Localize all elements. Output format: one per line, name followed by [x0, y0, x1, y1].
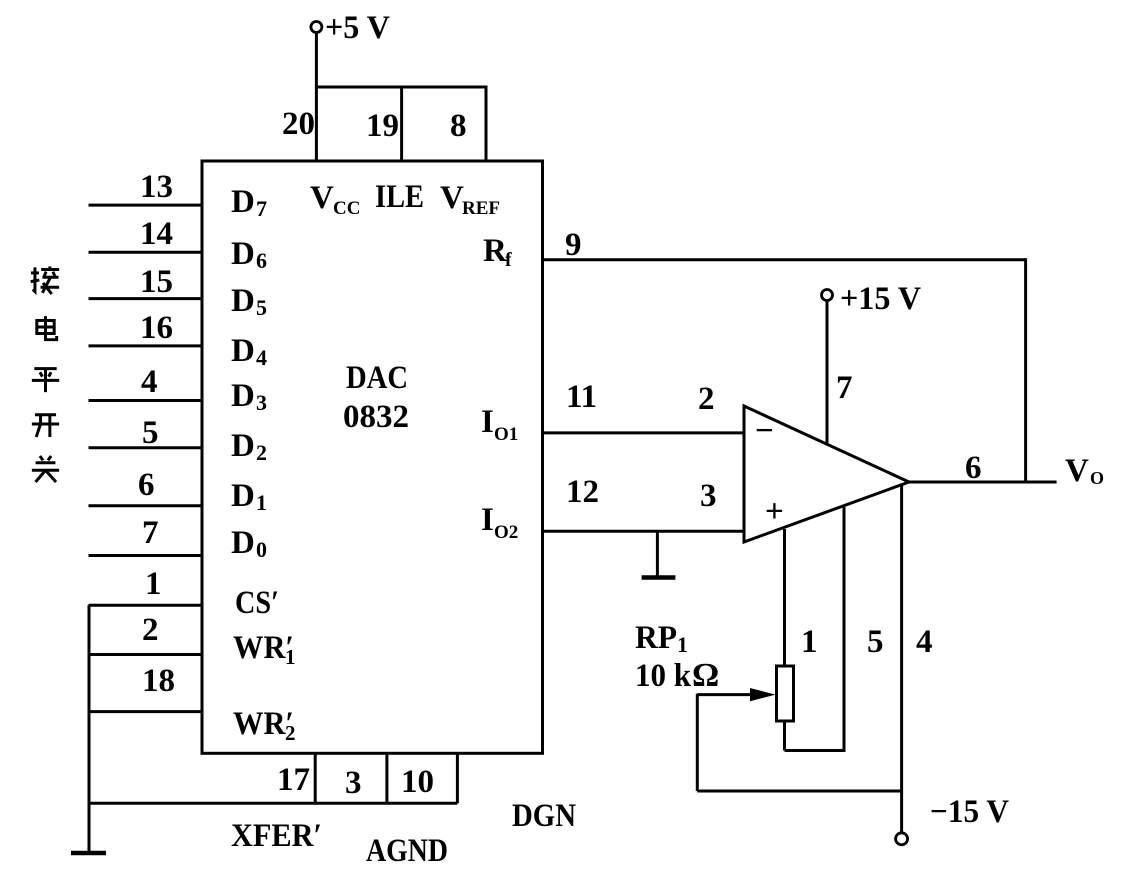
svg-text:18: 18	[142, 663, 175, 699]
svg-text:17: 17	[277, 762, 310, 798]
svg-text:ILE: ILE	[375, 179, 424, 215]
svg-text:D: D	[231, 428, 255, 464]
svg-text:REF: REF	[462, 198, 500, 219]
svg-text:−: −	[755, 413, 774, 449]
svg-text:DAC: DAC	[346, 360, 408, 396]
svg-text:−15 V: −15 V	[930, 794, 1009, 830]
svg-text:I: I	[481, 404, 494, 440]
svg-text:6: 6	[965, 450, 982, 486]
svg-text:D: D	[231, 184, 255, 220]
svg-text:1: 1	[677, 632, 688, 657]
svg-text:2: 2	[698, 381, 715, 417]
svg-text:7: 7	[256, 196, 267, 221]
svg-text:2: 2	[285, 721, 296, 745]
svg-text:9: 9	[565, 227, 582, 263]
svg-text:D: D	[231, 333, 255, 369]
svg-text:4: 4	[916, 624, 933, 660]
svg-text:+5 V: +5 V	[325, 10, 390, 46]
svg-text:6: 6	[256, 248, 267, 273]
svg-text:DGN: DGN	[512, 798, 576, 834]
svg-text:CS′: CS′	[235, 585, 279, 621]
svg-text:V: V	[1065, 453, 1089, 489]
svg-text:13: 13	[140, 169, 173, 205]
svg-text:3: 3	[700, 478, 717, 514]
svg-text:XFER′: XFER′	[231, 818, 322, 854]
svg-text:10: 10	[401, 764, 434, 800]
svg-text:D: D	[231, 378, 255, 414]
svg-text:1: 1	[285, 645, 296, 669]
svg-text:4: 4	[256, 345, 267, 370]
svg-text:V: V	[310, 180, 334, 216]
svg-text:7: 7	[142, 515, 159, 551]
svg-text:3: 3	[256, 390, 267, 415]
svg-text:19: 19	[366, 108, 399, 144]
svg-text:RP: RP	[635, 620, 677, 656]
svg-text:+: +	[765, 494, 784, 530]
svg-text:3: 3	[345, 765, 362, 801]
svg-text:AGND: AGND	[366, 833, 448, 869]
svg-text:D: D	[231, 478, 255, 514]
svg-text:0832: 0832	[343, 399, 409, 435]
svg-text:12: 12	[566, 474, 599, 510]
svg-text:16: 16	[140, 310, 173, 346]
svg-text:10 k: 10 k	[635, 658, 692, 694]
svg-text:D: D	[231, 283, 255, 319]
svg-text:5: 5	[867, 624, 884, 660]
svg-text:Ω: Ω	[692, 657, 719, 694]
svg-text:1: 1	[801, 624, 818, 660]
svg-text:6: 6	[138, 467, 155, 503]
svg-text:20: 20	[282, 106, 315, 142]
svg-text:0: 0	[256, 537, 267, 562]
svg-text:O: O	[1090, 468, 1104, 488]
svg-text:1: 1	[145, 566, 162, 602]
svg-text:D: D	[231, 525, 255, 561]
svg-text:5: 5	[142, 415, 159, 451]
svg-text:+15 V: +15 V	[840, 281, 921, 317]
svg-text:O1: O1	[494, 424, 518, 445]
svg-text:2: 2	[142, 612, 159, 648]
svg-text:15: 15	[140, 264, 173, 300]
svg-text:2: 2	[256, 440, 267, 465]
svg-text:14: 14	[140, 216, 173, 252]
svg-text:4: 4	[141, 364, 158, 400]
svg-text:O2: O2	[494, 522, 518, 543]
svg-text:7: 7	[836, 370, 853, 406]
svg-text:V: V	[440, 180, 464, 216]
svg-text:8: 8	[450, 108, 467, 144]
svg-text:D: D	[231, 236, 255, 272]
svg-text:11: 11	[566, 379, 597, 415]
svg-text:f: f	[505, 249, 512, 271]
svg-text:CC: CC	[333, 198, 360, 219]
svg-text:I: I	[481, 502, 494, 538]
svg-text:5: 5	[256, 295, 267, 320]
svg-text:1: 1	[256, 490, 267, 515]
